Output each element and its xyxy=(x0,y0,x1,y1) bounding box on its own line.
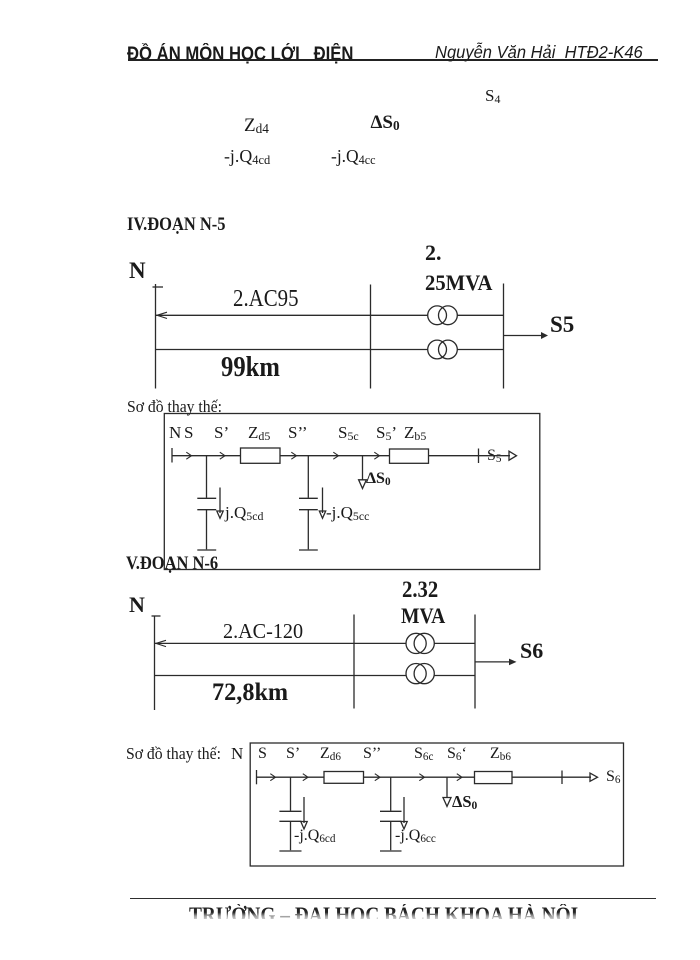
wire arrow 3 (box2) xyxy=(375,774,380,781)
wire arrow 4 (box1) xyxy=(333,452,338,459)
output label S5 (box1) xyxy=(487,448,502,464)
power loss label delta S0 (segment 4) xyxy=(371,113,400,132)
footer text (clipped at page bottom) xyxy=(189,904,578,919)
footer separator line xyxy=(130,898,656,900)
node label S'' (box1) xyxy=(288,424,308,441)
delta S0 open arrowhead (box2) xyxy=(443,798,451,807)
wire arrow 3 (box1) xyxy=(291,452,296,459)
current arrow beside C3 (box2) xyxy=(303,797,305,823)
box outline (box2) xyxy=(250,743,623,866)
input tick (box1) xyxy=(171,448,173,463)
node label N (box1) xyxy=(169,424,181,441)
wire arrow 1 (box1) xyxy=(186,452,191,459)
current arrow beside C4 (box2) xyxy=(403,797,405,823)
impedance label Zb6 xyxy=(490,746,511,762)
resistor Zb5 xyxy=(390,449,429,463)
current arrow beside C1 (box1) xyxy=(219,488,221,514)
caption: so do thay the (N-6) xyxy=(126,746,221,763)
node label S' (box2) xyxy=(286,746,300,762)
capacitor C2 bottom terminal (box1) xyxy=(299,549,318,551)
wire arrow 4 (box2) xyxy=(419,774,424,781)
capacitor C4 lead (box2) xyxy=(390,777,392,811)
transformer T2b circles (N-6 bottom) xyxy=(406,664,426,684)
node N label (diagram N-6) xyxy=(129,594,145,616)
capacitor C1 bottom terminal (box1) xyxy=(197,549,216,551)
wire bottom conductor right segment (N-5) xyxy=(457,349,503,351)
mid tap vertical line (N-5) xyxy=(370,285,372,389)
wire bottom conductor left segment (N-6) xyxy=(155,675,407,677)
wire arrow 1 (box2) xyxy=(270,774,275,781)
wire top conductor right segment (N-6) xyxy=(434,642,475,644)
wire arrow 5 (box1) xyxy=(374,452,379,459)
wire top conductor left segment (N-6) xyxy=(155,642,407,644)
line label 2.AC-120 xyxy=(223,621,303,642)
length label 72,8km xyxy=(212,680,288,705)
input tick (box2) xyxy=(256,770,258,784)
capacitor C3 plates (box2) xyxy=(279,810,301,812)
caption: so do thay the (N-5) xyxy=(127,399,222,416)
capacitor C3 lead (box2) xyxy=(290,777,292,811)
power loss label delta S0 (box2) xyxy=(452,794,477,811)
delta S0 branch lead (box1) xyxy=(362,456,364,480)
wire arrow 2 (box2) xyxy=(303,774,308,781)
tick at top of bus N (N-6) xyxy=(152,615,161,617)
capacitor C2 lower lead (box1) xyxy=(307,510,309,550)
impedance label Zd4 xyxy=(244,116,269,135)
tick before S5 output (box1) xyxy=(478,449,480,464)
capacitor C2 lead (box1) xyxy=(307,456,309,498)
impedance label Zd6 xyxy=(320,746,341,762)
node label S (box2) xyxy=(258,746,267,762)
transformer rating label 25MVA xyxy=(425,272,492,294)
header author right xyxy=(435,44,643,62)
impedance label Zb5 xyxy=(404,424,426,441)
charging label -j.Q6cc xyxy=(395,828,436,844)
output label S6 (box2) xyxy=(606,769,621,785)
box outline (box1) xyxy=(164,414,540,570)
charging label j.Q5cd xyxy=(225,504,263,521)
transformer T1a circles (N-5 top) xyxy=(428,306,447,325)
wire top conductor right segment (N-5) xyxy=(457,314,503,316)
transformer count label 2. xyxy=(425,242,442,264)
capacitor C1 plates (box1) xyxy=(197,497,216,499)
node label S6c xyxy=(414,746,433,762)
node label S (box1) xyxy=(184,424,193,441)
arrowhead at start of top conductor (N-6) xyxy=(156,640,166,646)
load label S6 xyxy=(520,640,543,662)
open arrowhead S5 output (box1) xyxy=(509,451,517,460)
charging label -j.Q5cc xyxy=(326,504,369,521)
impedance label Zd5 xyxy=(248,424,270,441)
mid tap vertical line (N-6) xyxy=(353,615,355,709)
node N label (diagram N-5) xyxy=(129,259,146,282)
node S4 xyxy=(485,87,500,104)
transformer rating label MVA xyxy=(401,605,445,627)
node label S6' xyxy=(447,746,467,762)
section heading IV xyxy=(127,216,225,235)
node label S5' xyxy=(376,424,397,441)
capacitor C1 lower lead (box1) xyxy=(206,510,208,550)
resistor Zd6 xyxy=(324,772,364,784)
capacitor C1 lead (box1) xyxy=(206,456,208,498)
tick at top of bus N (N-5) xyxy=(153,286,164,288)
capacitor C3 bottom terminal (box2) xyxy=(279,850,301,852)
tick before S6 output (box2) xyxy=(561,771,563,785)
delta S0 branch lead (box2) xyxy=(446,777,448,797)
charging power label -j.Q4cc xyxy=(331,147,376,165)
delta S0 open arrowhead (box1) xyxy=(359,480,367,489)
charging power label -j.Q4cd xyxy=(224,147,270,165)
length label 99km xyxy=(221,354,280,382)
transformer rating label 2.32 xyxy=(402,578,438,601)
resistor Zb6 xyxy=(475,772,513,784)
node label N (before box2) xyxy=(231,745,243,762)
arrow to S6 load xyxy=(475,661,511,663)
header underline xyxy=(128,59,658,61)
capacitor C3 lower lead (box2) xyxy=(290,821,292,850)
arrowhead at start of top conductor (N-5) xyxy=(157,312,167,318)
bus N vertical line (N-5) xyxy=(155,284,157,389)
capacitor C4 plates (box2) xyxy=(380,810,402,812)
arrow to S5 load xyxy=(504,335,543,337)
open arrowhead S6 output (box2) xyxy=(590,773,598,781)
charging label -j.Q6cd xyxy=(294,828,335,844)
section heading V xyxy=(126,555,218,574)
load label S5 xyxy=(550,313,574,336)
node label S5c xyxy=(338,424,359,441)
load bus vertical line (N-6) xyxy=(474,615,476,709)
load bus vertical line (N-5) xyxy=(503,284,505,389)
wire top conductor left segment (N-5) xyxy=(156,314,428,316)
header title left xyxy=(127,45,353,64)
wire arrow 2 (box1) xyxy=(220,452,225,459)
line label 2.AC95 xyxy=(233,287,299,311)
main wire (box1) xyxy=(172,455,510,457)
node label S' (box1) xyxy=(214,424,229,441)
resistor Zd5 xyxy=(241,448,281,463)
bus N vertical line (N-6) xyxy=(154,616,156,711)
main wire (box2) xyxy=(257,776,592,778)
capacitor C2 plates (box1) xyxy=(299,497,318,499)
node label S'' (box2) xyxy=(363,746,381,762)
wire arrow 5 (box2) xyxy=(457,774,462,781)
wire bottom conductor right segment (N-6) xyxy=(434,675,475,677)
wire bottom conductor left segment (N-5) xyxy=(156,349,428,351)
power loss label delta S0 (box1) xyxy=(366,471,391,487)
capacitor C4 bottom terminal (box2) xyxy=(380,850,402,852)
current arrow beside C2 (box1) xyxy=(322,488,324,514)
transformer T1b circles (N-5 bottom) xyxy=(428,340,447,359)
transformer T2a circles (N-6 top) xyxy=(406,633,426,653)
capacitor C4 lower lead (box2) xyxy=(390,821,392,850)
